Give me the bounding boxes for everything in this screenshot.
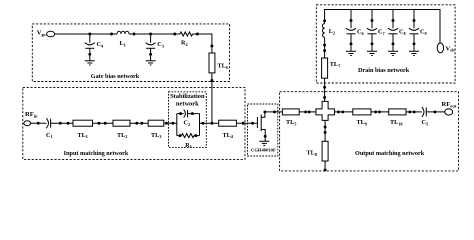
svg-text:Output matching network: Output matching network xyxy=(355,150,425,157)
svg-text:network: network xyxy=(176,101,199,108)
svg-text:Gate bias network: Gate bias network xyxy=(91,73,140,80)
svg-text:Stabilization: Stabilization xyxy=(170,93,205,100)
svg-text:Input matching network: Input matching network xyxy=(64,150,129,157)
svg-text:Drain bias network: Drain bias network xyxy=(358,67,410,74)
svg-text:CGH40010F: CGH40010F xyxy=(251,148,276,153)
